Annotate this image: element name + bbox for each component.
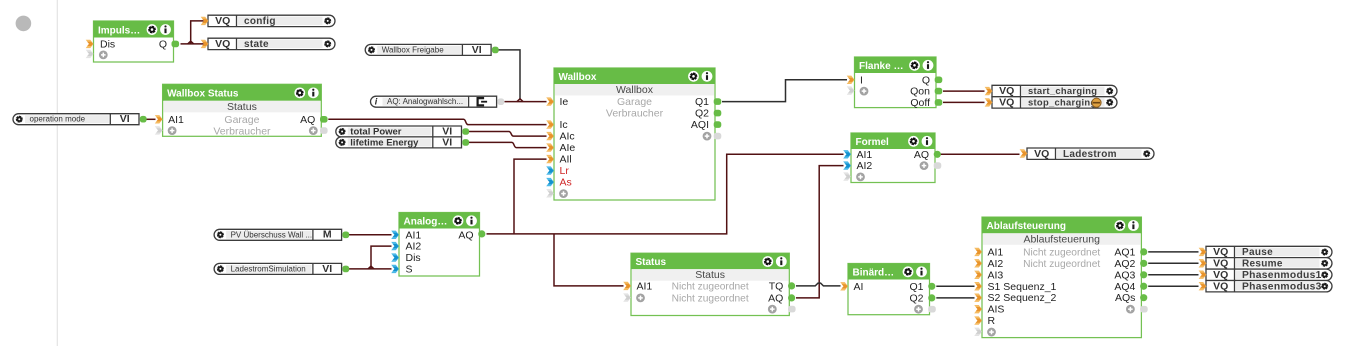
virtual output VQ config — [201, 15, 335, 27]
svg-text:Flanke …: Flanke … — [859, 61, 903, 72]
svg-text:Status: Status — [227, 101, 257, 113]
svg-text:S1 Sequenz_1: S1 Sequenz_1 — [988, 281, 1057, 293]
svg-text:Lr: Lr — [560, 165, 570, 177]
virtual input total Power — [336, 125, 469, 137]
svg-text:Analog…: Analog… — [404, 216, 448, 227]
wire Binaer Q2 to Ablaufsteuerung S2 — [936, 297, 974, 299]
svg-text:AQ: AQ — [914, 149, 929, 161]
svg-text:config: config — [244, 16, 276, 27]
wire operation mode to Wallbox Status AI1 — [147, 118, 156, 120]
virtual input lifetime Energy — [336, 136, 469, 148]
svg-text:AI2: AI2 — [857, 160, 873, 172]
wire lifetime Energy to Wallbox AIe — [469, 142, 547, 147]
function block Formel (formula) — [843, 133, 941, 183]
svg-text:PV Überschuss Wall ...: PV Überschuss Wall ... — [231, 230, 313, 239]
left panel divider line — [56, 0, 58, 346]
svg-text:VQ: VQ — [1213, 257, 1228, 269]
wire Status TQ to Binaer AI (digital, with hop) — [796, 283, 841, 286]
wire Binaer Q1 to Ablaufsteuerung S1 — [936, 285, 974, 287]
svg-text:VQ: VQ — [215, 15, 230, 27]
wire Formel AQ to VQ Ladestrom — [939, 153, 1020, 155]
virtual output VQ Phasenmodus3 — [1199, 280, 1332, 292]
virtual output VQ Pause — [1199, 246, 1332, 258]
svg-text:AQ3: AQ3 — [1114, 269, 1135, 281]
svg-text:operation mode: operation mode — [30, 115, 86, 124]
svg-text:Impuls…: Impuls… — [98, 25, 140, 36]
svg-text:VI: VI — [442, 136, 452, 148]
svg-text:Q1: Q1 — [695, 96, 709, 108]
svg-text:Nicht zugeordnet: Nicht zugeordnet — [1023, 259, 1100, 270]
svg-text:Status: Status — [695, 269, 725, 281]
svg-text:Qoff: Qoff — [910, 97, 930, 109]
wire total Power to Wallbox AIc — [469, 132, 547, 137]
meter input PV Ueberschuss Wallbox — [214, 229, 349, 241]
svg-text:AI2: AI2 — [988, 258, 1004, 270]
svg-text:Status: Status — [636, 257, 667, 268]
svg-text:total Power: total Power — [350, 126, 402, 137]
svg-text:Pause: Pause — [1242, 247, 1273, 258]
svg-text:Dis: Dis — [100, 38, 115, 50]
function block Wallbox (charger U2) — [546, 68, 721, 200]
wire Wallbox Freigabe to Wallbox Ie (digital) — [499, 50, 521, 99]
svg-text:AI1: AI1 — [406, 229, 422, 241]
gray dot top-left — [16, 16, 32, 32]
wire Wallbox Status AQ to Wallbox Ic — [328, 119, 546, 124]
svg-text:Resume: Resume — [1242, 258, 1283, 269]
svg-text:Verbraucher: Verbraucher — [606, 108, 664, 120]
svg-text:AIS: AIS — [988, 304, 1005, 316]
svg-text:VI: VI — [322, 263, 332, 275]
function block Status — [623, 253, 795, 315]
virtual input Wallbox Freigabe — [365, 44, 498, 56]
virtual output VQ stop_charging — [985, 97, 1117, 109]
svg-text:VI: VI — [120, 113, 130, 125]
wire Ablauf AQ3 to VQ Phasenmodus1 — [1148, 274, 1198, 276]
wire Flanke Qon to VQ start_charging — [943, 90, 985, 92]
wire Analog AQ to Wallbox AIl, Status AI1 and Formel AI1 — [487, 154, 844, 286]
svg-text:Phasenmodus3: Phasenmodus3 — [1242, 281, 1322, 292]
svg-text:AIc: AIc — [560, 131, 575, 143]
svg-text:R: R — [988, 315, 996, 327]
svg-text:state: state — [244, 39, 269, 50]
svg-text:AQI: AQI — [691, 119, 709, 131]
wire PV Ueberschuss to Analog AI1 — [349, 234, 392, 236]
svg-text:Phasenmodus1: Phasenmodus1 — [1242, 270, 1322, 281]
svg-text:AI2: AI2 — [406, 241, 422, 253]
svg-text:Verbraucher: Verbraucher — [213, 125, 271, 137]
svg-text:AI3: AI3 — [988, 269, 1004, 281]
svg-text:M: M — [323, 229, 332, 241]
function block Analog (analog switch) — [391, 213, 485, 277]
virtual input LadestromSimulation — [214, 263, 349, 275]
wire Impuls Q to VQ config and VQ state — [181, 21, 204, 44]
svg-text:Q1: Q1 — [909, 281, 923, 293]
svg-text:Q: Q — [159, 38, 167, 50]
svg-text:LadestromSimulation: LadestromSimulation — [231, 264, 306, 273]
svg-text:Q: Q — [922, 74, 930, 86]
function block Wallbox Status — [155, 84, 328, 137]
svg-text:I: I — [860, 74, 863, 86]
wire Ablauf AQ1 to VQ Pause — [1148, 251, 1198, 253]
svg-text:VQ: VQ — [1034, 148, 1049, 160]
svg-text:AQ: AQ — [458, 229, 473, 241]
svg-text:Garage: Garage — [224, 114, 259, 126]
svg-text:VQ: VQ — [1213, 246, 1228, 258]
function block Binaerdekoder — [840, 264, 936, 315]
function block Ablaufsteuerung (sequence control) — [974, 217, 1147, 338]
wire LadestromSimulation to Analog S and AI2 — [349, 246, 392, 269]
svg-text:AIl: AIl — [560, 154, 572, 166]
svg-text:AI1: AI1 — [857, 149, 873, 161]
svg-text:S2 Sequenz_2: S2 Sequenz_2 — [988, 292, 1057, 304]
svg-text:AQ: AQ — [768, 292, 783, 304]
svg-text:TQ: TQ — [769, 280, 784, 292]
svg-text:AIe: AIe — [560, 142, 576, 154]
virtual output VQ Resume — [1199, 257, 1332, 269]
svg-text:Nicht zugeordnet: Nicht zugeordnet — [672, 281, 749, 292]
svg-text:VQ: VQ — [1213, 269, 1228, 281]
svg-text:AI: AI — [854, 281, 864, 293]
svg-text:AQ4: AQ4 — [1114, 281, 1135, 293]
svg-text:VI: VI — [472, 44, 482, 56]
svg-text:Garage: Garage — [617, 96, 652, 108]
svg-text:Ablaufsteuerung: Ablaufsteuerung — [1023, 233, 1100, 245]
function block Flanke (edge detector) — [847, 57, 943, 109]
svg-text:AI1: AI1 — [168, 114, 184, 126]
svg-text:Wallbox Status: Wallbox Status — [167, 89, 239, 100]
svg-text:Ie: Ie — [560, 96, 569, 108]
svg-text:AQ: Analogwahlsch...: AQ: Analogwahlsch... — [387, 97, 463, 106]
svg-text:Nicht zugeordnet: Nicht zugeordnet — [672, 293, 749, 304]
reference input AQ Analogwahlschalter — [371, 96, 505, 107]
svg-text:AI1: AI1 — [637, 280, 653, 292]
virtual output VQ Ladestrom — [1020, 148, 1154, 160]
svg-text:Dis: Dis — [406, 252, 421, 264]
svg-text:stop_charging: stop_charging — [1028, 97, 1097, 108]
svg-text:start_charging: start_charging — [1028, 85, 1097, 96]
svg-text:VQ: VQ — [215, 38, 230, 50]
svg-text:AQ: AQ — [300, 114, 315, 126]
svg-text:VQ: VQ — [999, 97, 1014, 109]
svg-text:Q2: Q2 — [909, 292, 923, 304]
svg-text:AQ1: AQ1 — [1114, 246, 1135, 258]
virtual output VQ Phasenmodus1 — [1199, 269, 1332, 281]
wire Ablauf AQ2 to VQ Resume — [1148, 262, 1198, 264]
svg-text:S: S — [406, 263, 413, 275]
virtual output VQ state — [201, 38, 335, 50]
virtual output VQ start_charging — [985, 85, 1117, 97]
svg-text:Wallbox: Wallbox — [616, 84, 654, 96]
svg-text:Ablaufsteuerung: Ablaufsteuerung — [987, 221, 1066, 232]
svg-text:Formel: Formel — [856, 137, 890, 148]
svg-text:AQs: AQs — [1115, 292, 1135, 304]
wire Flanke Qoff to VQ stop_charging — [943, 101, 985, 103]
svg-text:As: As — [560, 177, 572, 189]
svg-text:Ic: Ic — [560, 119, 568, 131]
wire AQ Analogwahlschalter to Wallbox Ie — [505, 99, 547, 102]
wire Wallbox Q1 to Flanke I (digital) — [722, 80, 847, 102]
virtual input operation mode — [13, 113, 147, 125]
svg-text:Wallbox: Wallbox — [559, 72, 597, 83]
wire Status AQ to Formel AI2 — [796, 166, 844, 298]
svg-text:AQ2: AQ2 — [1114, 258, 1135, 270]
svg-text:AI1: AI1 — [988, 246, 1004, 258]
svg-text:lifetime Energy: lifetime Energy — [350, 137, 419, 148]
svg-text:Binärd…: Binärd… — [853, 267, 895, 278]
svg-text:VQ: VQ — [1213, 280, 1228, 292]
svg-text:Wallbox Freigabe: Wallbox Freigabe — [382, 45, 445, 54]
wire Ablauf AQ4 to VQ Phasenmodus3 — [1148, 285, 1198, 287]
svg-text:Qon: Qon — [910, 86, 930, 98]
svg-text:VQ: VQ — [999, 85, 1014, 97]
svg-text:Nicht zugeordnet: Nicht zugeordnet — [1023, 247, 1100, 258]
svg-text:Q2: Q2 — [695, 108, 709, 120]
function block Impuls (pulse generator U1) — [86, 21, 179, 62]
svg-text:Ladestrom: Ladestrom — [1063, 149, 1117, 160]
